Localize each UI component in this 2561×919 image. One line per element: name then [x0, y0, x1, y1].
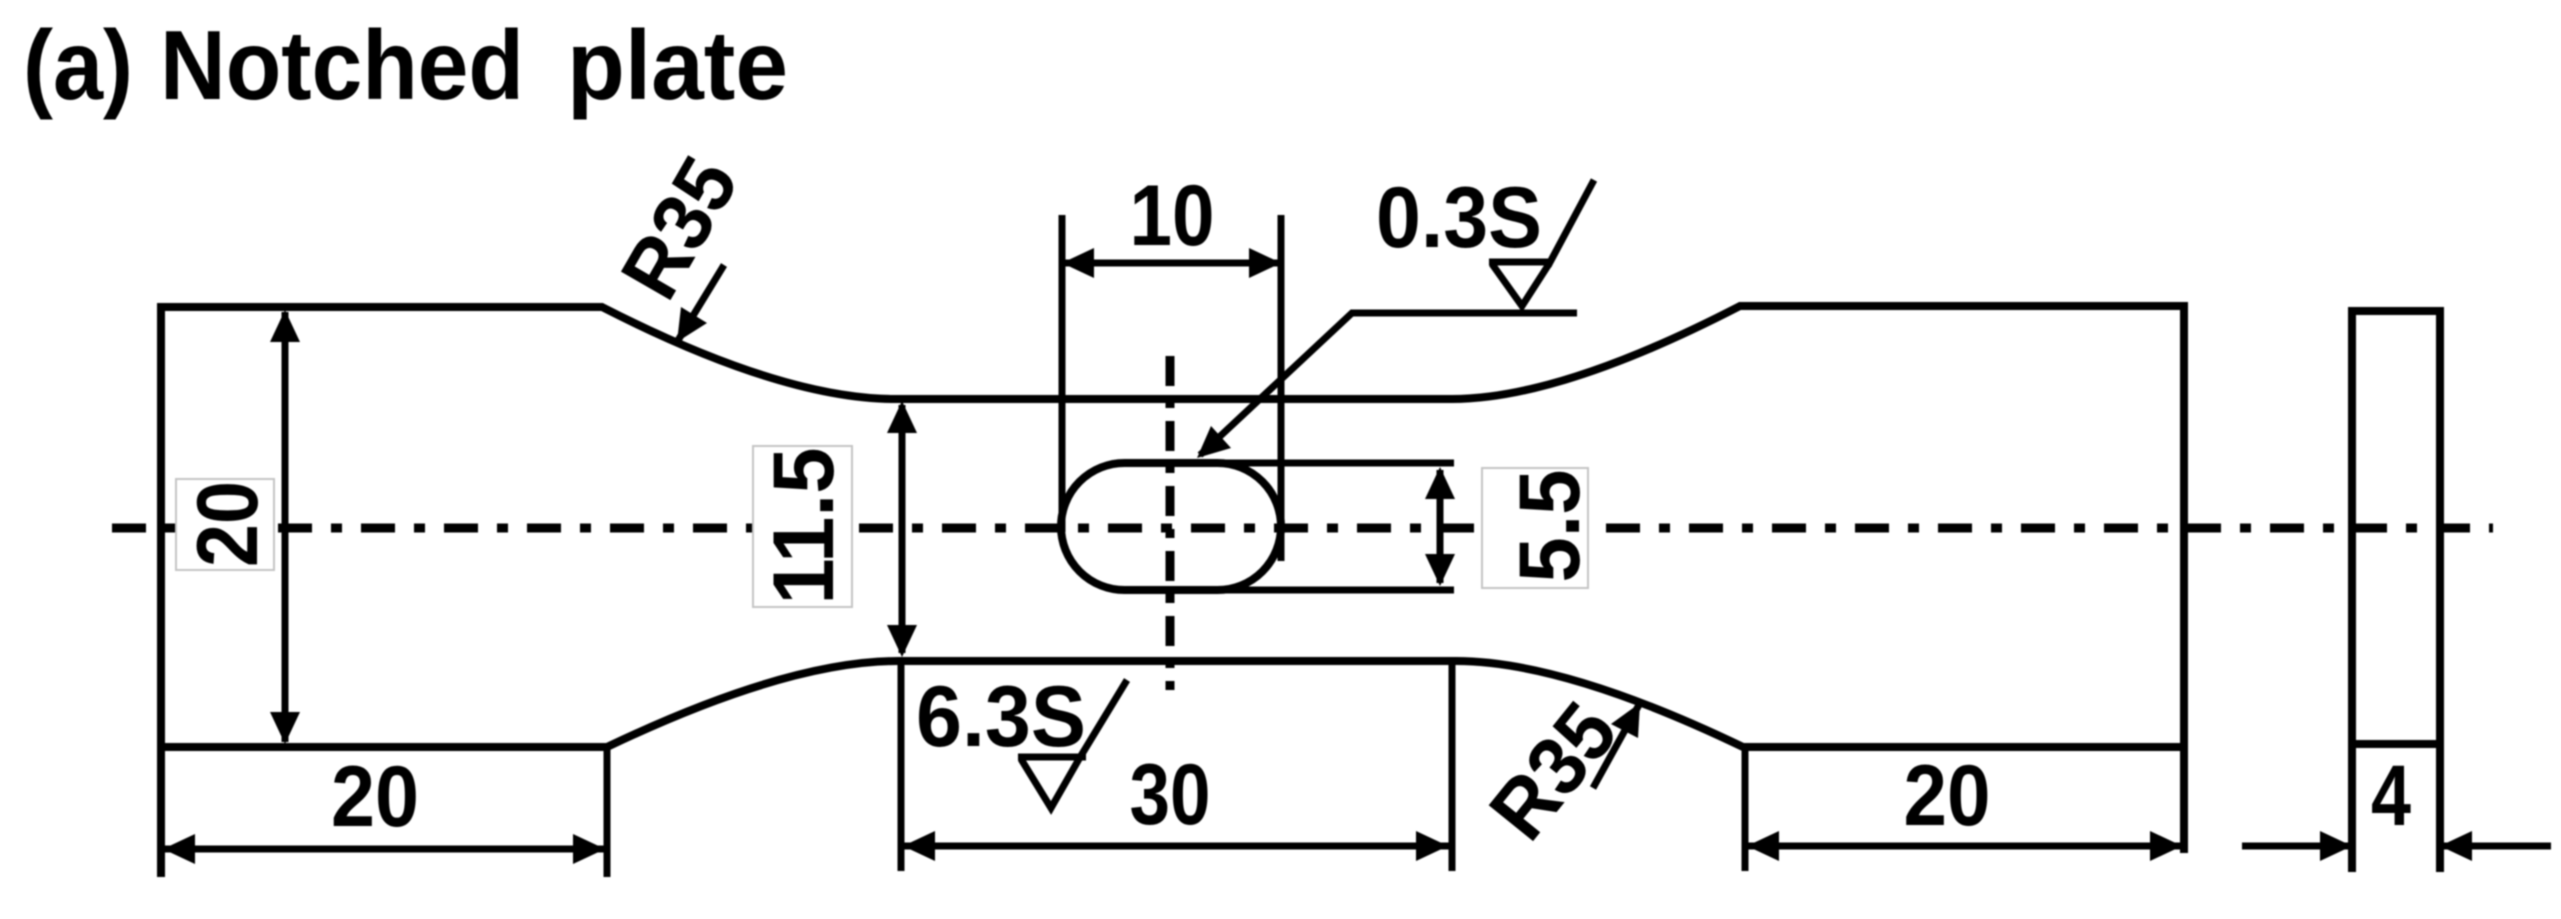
surface symbol 0.3S slash — [1548, 180, 1594, 266]
svg-text:(a): (a) — [23, 10, 133, 120]
svg-text:6.3S: 6.3S — [916, 669, 1086, 765]
label box 11.5 — [753, 446, 852, 607]
svg-text:11.5: 11.5 — [756, 448, 852, 605]
svg-text:plate: plate — [567, 10, 788, 120]
surface symbol 6.3S vee — [1021, 759, 1079, 808]
dim line 4 left — [2242, 843, 2350, 850]
plate right edge + extension — [2180, 302, 2188, 853]
title (a) Notched plate — [23, 10, 788, 120]
arrow 4 right — [2440, 831, 2472, 861]
leader R35 top — [677, 265, 724, 342]
10 dim left extension — [1059, 215, 1066, 532]
leader R35 bottom — [1593, 703, 1640, 788]
arrow R35 bottom — [1611, 703, 1640, 738]
slot (obround hole) — [1061, 463, 1281, 590]
extension line below left grip right corner — [604, 747, 611, 877]
10 dim right extension — [1278, 215, 1285, 561]
plate left edge + extension — [157, 303, 165, 877]
dim line 20 height — [282, 312, 289, 742]
label box 5.5 — [1482, 468, 1588, 588]
slot top tangent extension (5.5 dim) — [1218, 460, 1454, 467]
extension line below right grip left corner — [1742, 747, 1749, 871]
arrow 20L left — [163, 834, 195, 864]
arrow R35 top — [677, 307, 707, 342]
arrow leader 0.3S — [1197, 426, 1231, 458]
vertical centerline through slot — [1166, 356, 1175, 690]
surface symbol 0.3S bar — [1489, 259, 1549, 266]
dim line 30 — [903, 843, 1450, 850]
svg-text:20: 20 — [180, 481, 276, 567]
side view top edge — [2348, 307, 2444, 315]
extension line below narrow section left — [898, 661, 905, 871]
svg-text:R35: R35 — [603, 142, 756, 314]
svg-text:30: 30 — [1130, 747, 1211, 843]
surface symbol 6.3S bar — [1018, 754, 1086, 761]
arrow 30 left — [903, 831, 935, 861]
side view bottom edge — [2348, 740, 2444, 748]
svg-text:Notched: Notched — [160, 10, 524, 120]
surface symbol 0.3S vee — [1492, 264, 1549, 306]
horizontal centerline — [112, 524, 2493, 533]
svg-text:5.5: 5.5 — [1502, 470, 1598, 583]
extension line below narrow section right — [1449, 661, 1456, 871]
surface symbol 6.3S slash — [1079, 680, 1127, 759]
dim line 20 bottom-right — [1747, 843, 2182, 850]
arrow 4 left — [2320, 831, 2352, 861]
arrow 20R left — [1747, 831, 1779, 861]
svg-text:20: 20 — [331, 749, 419, 845]
dim line 4 right — [2442, 843, 2551, 850]
arrow 10 right — [1249, 248, 1281, 278]
arrow 20R right — [2150, 831, 2182, 861]
arrow 20L right — [573, 834, 605, 864]
dim line 10 — [1062, 260, 1281, 267]
arrow 20 height top — [270, 310, 300, 342]
arrow 10 left — [1062, 248, 1094, 278]
arrow 11.5 top — [887, 401, 917, 433]
plate top profile — [161, 306, 2184, 399]
arrow 20 height bottom — [270, 712, 300, 744]
svg-text:R35: R35 — [1471, 685, 1635, 856]
dim line 20 bottom-left — [163, 846, 605, 853]
side view left edge — [2348, 311, 2356, 872]
arrow 5.5 bottom — [1425, 554, 1455, 586]
label box 20 left — [176, 479, 274, 570]
dim line 5.5 — [1437, 470, 1444, 583]
arrow 11.5 bottom — [887, 625, 917, 657]
svg-text:20: 20 — [1904, 748, 1991, 844]
svg-text:10: 10 — [1130, 168, 1215, 264]
dim line 11.5 — [899, 405, 906, 653]
arrow 30 right — [1416, 831, 1448, 861]
svg-text:0.3S: 0.3S — [1376, 170, 1542, 266]
leader 0.3S — [1200, 313, 1577, 455]
plate bottom profile — [161, 661, 2184, 747]
arrow 5.5 top — [1425, 467, 1455, 499]
svg-text:4: 4 — [2371, 748, 2411, 844]
slot bottom tangent extension (5.5 dim) — [1218, 587, 1454, 594]
side view right edge — [2436, 311, 2444, 872]
